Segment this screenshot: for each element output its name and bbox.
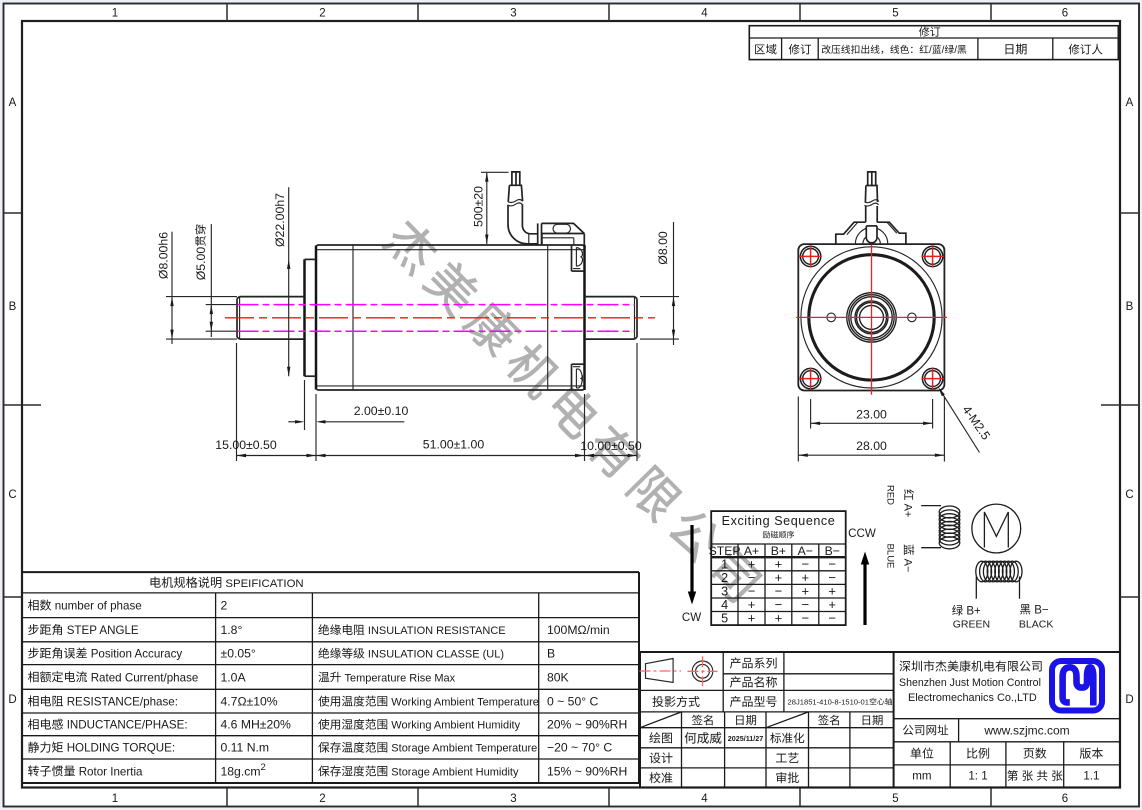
- svg-text:Position Accuracy: Position Accuracy: [91, 648, 183, 661]
- svg-text:Shenzhen Just Motion Control: Shenzhen Just Motion Control: [899, 677, 1041, 689]
- label A- blue wire: [902, 545, 915, 573]
- dimension 51.00±1.00: [316, 438, 585, 458]
- svg-text:Rated Current/phase: Rated Current/phase: [91, 671, 199, 684]
- svg-text:A: A: [1126, 97, 1134, 109]
- svg-text:28J1851-410-8-1510-01: 28J1851-410-8-1510-01: [788, 698, 870, 707]
- svg-text:10.00±0.50: 10.00±0.50: [580, 439, 642, 453]
- dimension 28.00 (flange size): [798, 397, 944, 462]
- svg-text:C: C: [1125, 489, 1133, 501]
- svg-text:C: C: [8, 489, 16, 501]
- svg-text:Working Ambient Temperature: Working Ambient Temperature: [391, 697, 539, 709]
- svg-text:2: 2: [721, 571, 728, 585]
- svg-text:4: 4: [701, 8, 708, 20]
- label B+ green wire: [952, 605, 981, 618]
- svg-text:2025/11/27: 2025/11/27: [728, 734, 764, 743]
- svg-text:1.1: 1.1: [1083, 770, 1099, 783]
- svg-text:INSULATION CLASSE (UL): INSULATION CLASSE (UL): [368, 649, 504, 661]
- side view: motor body outline: [316, 245, 585, 390]
- svg-text:1: 1: [112, 793, 118, 805]
- company web row: [894, 719, 1120, 788]
- svg-text:CW: CW: [682, 611, 701, 624]
- JMC logo: [1052, 661, 1102, 711]
- svg-text:A: A: [9, 97, 17, 109]
- svg-text:BLUE: BLUE: [885, 544, 896, 569]
- svg-text:Exciting Sequence: Exciting Sequence: [722, 514, 836, 528]
- svg-text:20% ~ 90%RH: 20% ~ 90%RH: [547, 718, 627, 732]
- svg-text:mm: mm: [912, 770, 931, 783]
- motor specification table: [22, 572, 639, 783]
- svg-text:Storage Ambient Humidity: Storage Ambient Humidity: [391, 766, 519, 778]
- watermark company name: [380, 214, 765, 604]
- svg-text:1.8°: 1.8°: [221, 623, 243, 637]
- svg-text:15% ~ 90%RH: 15% ~ 90%RH: [547, 764, 627, 778]
- side view: cable and connector: [481, 172, 584, 245]
- svg-text:GREEN: GREEN: [953, 619, 990, 631]
- svg-text:±0.05°: ±0.05°: [221, 647, 256, 661]
- projection symbols: [640, 656, 718, 686]
- front view: corner mounting holes 4-M2.5: [799, 245, 821, 267]
- company info: [899, 660, 1042, 703]
- svg-text:2: 2: [319, 793, 325, 805]
- svg-text:+: +: [748, 611, 756, 626]
- winding diagram: phase B coil: [976, 561, 1022, 599]
- dimension Ø8.00 (right shaft): [640, 222, 679, 345]
- dimension Ø22.00h7 (pilot boss): [273, 187, 290, 376]
- dimension Ø5.00 through bore: [194, 224, 236, 337]
- svg-text:+: +: [775, 611, 783, 626]
- svg-text:3: 3: [510, 8, 516, 20]
- side view: shaft centerline (red): [225, 317, 655, 319]
- dimension 10.00±0.50: [580, 439, 642, 457]
- svg-text:Ø8.00: Ø8.00: [656, 231, 670, 265]
- label A+ red wire: [902, 489, 915, 517]
- svg-text:2.00±0.10: 2.00±0.10: [354, 404, 409, 418]
- svg-text:B: B: [547, 647, 555, 661]
- svg-text:/: /: [954, 45, 957, 56]
- svg-text:4.6 MH±20%: 4.6 MH±20%: [221, 718, 292, 732]
- svg-text:28.00: 28.00: [856, 439, 887, 453]
- svg-text:STEP ANGLE: STEP ANGLE: [67, 624, 139, 637]
- front view: center boss and shaft circles: [847, 293, 896, 342]
- svg-text:0 ~ 50° C: 0 ~ 50° C: [547, 695, 598, 709]
- dimension 500±20 (cable length): [471, 172, 488, 244]
- svg-text:2: 2: [221, 599, 228, 613]
- title block: [640, 652, 1120, 788]
- CW arrow: [682, 525, 701, 624]
- revision table: [749, 26, 1118, 60]
- svg-text:1: 1: 1: 1: [968, 770, 987, 783]
- dimension 23.00 (hole spacing): [811, 399, 933, 429]
- front view: side wire holes: [827, 313, 836, 322]
- svg-text:www.szjmc.com: www.szjmc.com: [983, 723, 1069, 737]
- svg-text:−: −: [802, 611, 810, 626]
- svg-text:BLACK: BLACK: [1019, 619, 1053, 631]
- title block labels: [640, 657, 892, 783]
- exciting sequence table: [709, 511, 846, 626]
- svg-text:−20 ~ 70° C: −20 ~ 70° C: [547, 741, 612, 755]
- svg-text:RED: RED: [885, 485, 896, 505]
- side view: rear mounting tab top: [572, 245, 585, 271]
- svg-text:2: 2: [261, 762, 266, 773]
- svg-text:−: −: [828, 611, 836, 626]
- svg-text:6: 6: [1062, 793, 1068, 805]
- svg-text:A+: A+: [902, 504, 914, 518]
- svg-text:INSULATION RESISTANCE: INSULATION RESISTANCE: [368, 625, 506, 637]
- svg-text:2: 2: [319, 8, 325, 20]
- svg-text:Ø5.00: Ø5.00: [194, 247, 208, 281]
- dimension Ø8.00h6 (left shaft): [157, 232, 237, 344]
- svg-text:5: 5: [721, 612, 728, 626]
- svg-text:Electromechanics Co.,LTD: Electromechanics Co.,LTD: [908, 692, 1037, 704]
- svg-text:80K: 80K: [547, 670, 569, 684]
- svg-text:Storage Ambient Temperature: Storage Ambient Temperature: [391, 743, 537, 755]
- svg-text:4.7Ω±10%: 4.7Ω±10%: [221, 695, 278, 709]
- svg-text:Ø8.00h6: Ø8.00h6: [157, 232, 171, 279]
- svg-text:INDUCTANCE/PHASE:: INDUCTANCE/PHASE:: [67, 719, 188, 732]
- svg-text:23.00: 23.00: [856, 407, 887, 421]
- side view: front pilot boss: [305, 259, 317, 376]
- svg-text:4: 4: [701, 793, 708, 805]
- svg-text:D: D: [1125, 694, 1133, 706]
- svg-text:5: 5: [892, 793, 898, 805]
- winding diagram: phase A coil: [921, 506, 960, 549]
- svg-text:500±20: 500±20: [471, 186, 485, 227]
- svg-text:Temperature Rise Max: Temperature Rise Max: [345, 672, 456, 684]
- svg-text:B: B: [1126, 301, 1134, 313]
- svg-text:D: D: [8, 694, 16, 706]
- svg-text:18g.cm: 18g.cm: [221, 764, 261, 778]
- svg-text:RESISTANCE/phase:: RESISTANCE/phase:: [67, 696, 178, 709]
- svg-text:B−: B−: [1034, 605, 1049, 617]
- svg-text:/: /: [929, 45, 932, 56]
- dimension 15.00±0.50: [215, 438, 316, 457]
- svg-text:STEP: STEP: [709, 544, 741, 558]
- svg-text:HOLDING TORQUE:: HOLDING TORQUE:: [67, 742, 175, 755]
- svg-text:0.11 N.m: 0.11 N.m: [221, 741, 270, 755]
- svg-text:51.00±1.00: 51.00±1.00: [423, 438, 485, 452]
- svg-text:B+: B+: [966, 606, 981, 618]
- motor symbol M: [972, 504, 1021, 553]
- front view: cable gland on top: [836, 172, 906, 244]
- svg-text:A−: A−: [902, 559, 914, 573]
- svg-text:3: 3: [721, 585, 728, 599]
- side view: hollow bore lines (magenta): [238, 304, 635, 306]
- svg-text:B: B: [9, 301, 17, 313]
- svg-text:15.00±0.50: 15.00±0.50: [215, 438, 277, 452]
- side view: shaft: [237, 297, 637, 340]
- front view: red centerlines: [871, 245, 873, 395]
- front view: body circles: [801, 247, 942, 388]
- svg-text:4: 4: [721, 598, 728, 612]
- svg-text:SPEIFICATION: SPEIFICATION: [225, 578, 303, 590]
- svg-text:1: 1: [721, 557, 728, 571]
- leader 4-M2.5: [938, 387, 993, 452]
- svg-text:1.0A: 1.0A: [221, 670, 247, 684]
- svg-text:/: /: [942, 45, 945, 56]
- svg-text:Working Ambient Humidity: Working Ambient Humidity: [391, 720, 520, 732]
- CCW arrow: [848, 527, 876, 625]
- dimension 2.00±0.10: [288, 404, 408, 423]
- svg-text:Rotor Inertia: Rotor Inertia: [79, 765, 143, 778]
- svg-text:6: 6: [1062, 8, 1068, 20]
- front view: square flange: [798, 244, 944, 390]
- svg-text:5: 5: [892, 8, 898, 20]
- svg-text:Ø22.00h7: Ø22.00h7: [273, 193, 287, 247]
- svg-text:number of phase: number of phase: [55, 600, 142, 613]
- side view: rear mounting tab bottom: [572, 364, 585, 390]
- svg-text:3: 3: [510, 793, 516, 805]
- bottom dimensions of side view: [237, 343, 638, 461]
- svg-text:CCW: CCW: [848, 527, 876, 540]
- svg-text:100MΩ/min: 100MΩ/min: [547, 623, 610, 637]
- label B- black wire: [1020, 604, 1049, 616]
- svg-text:1: 1: [112, 8, 118, 20]
